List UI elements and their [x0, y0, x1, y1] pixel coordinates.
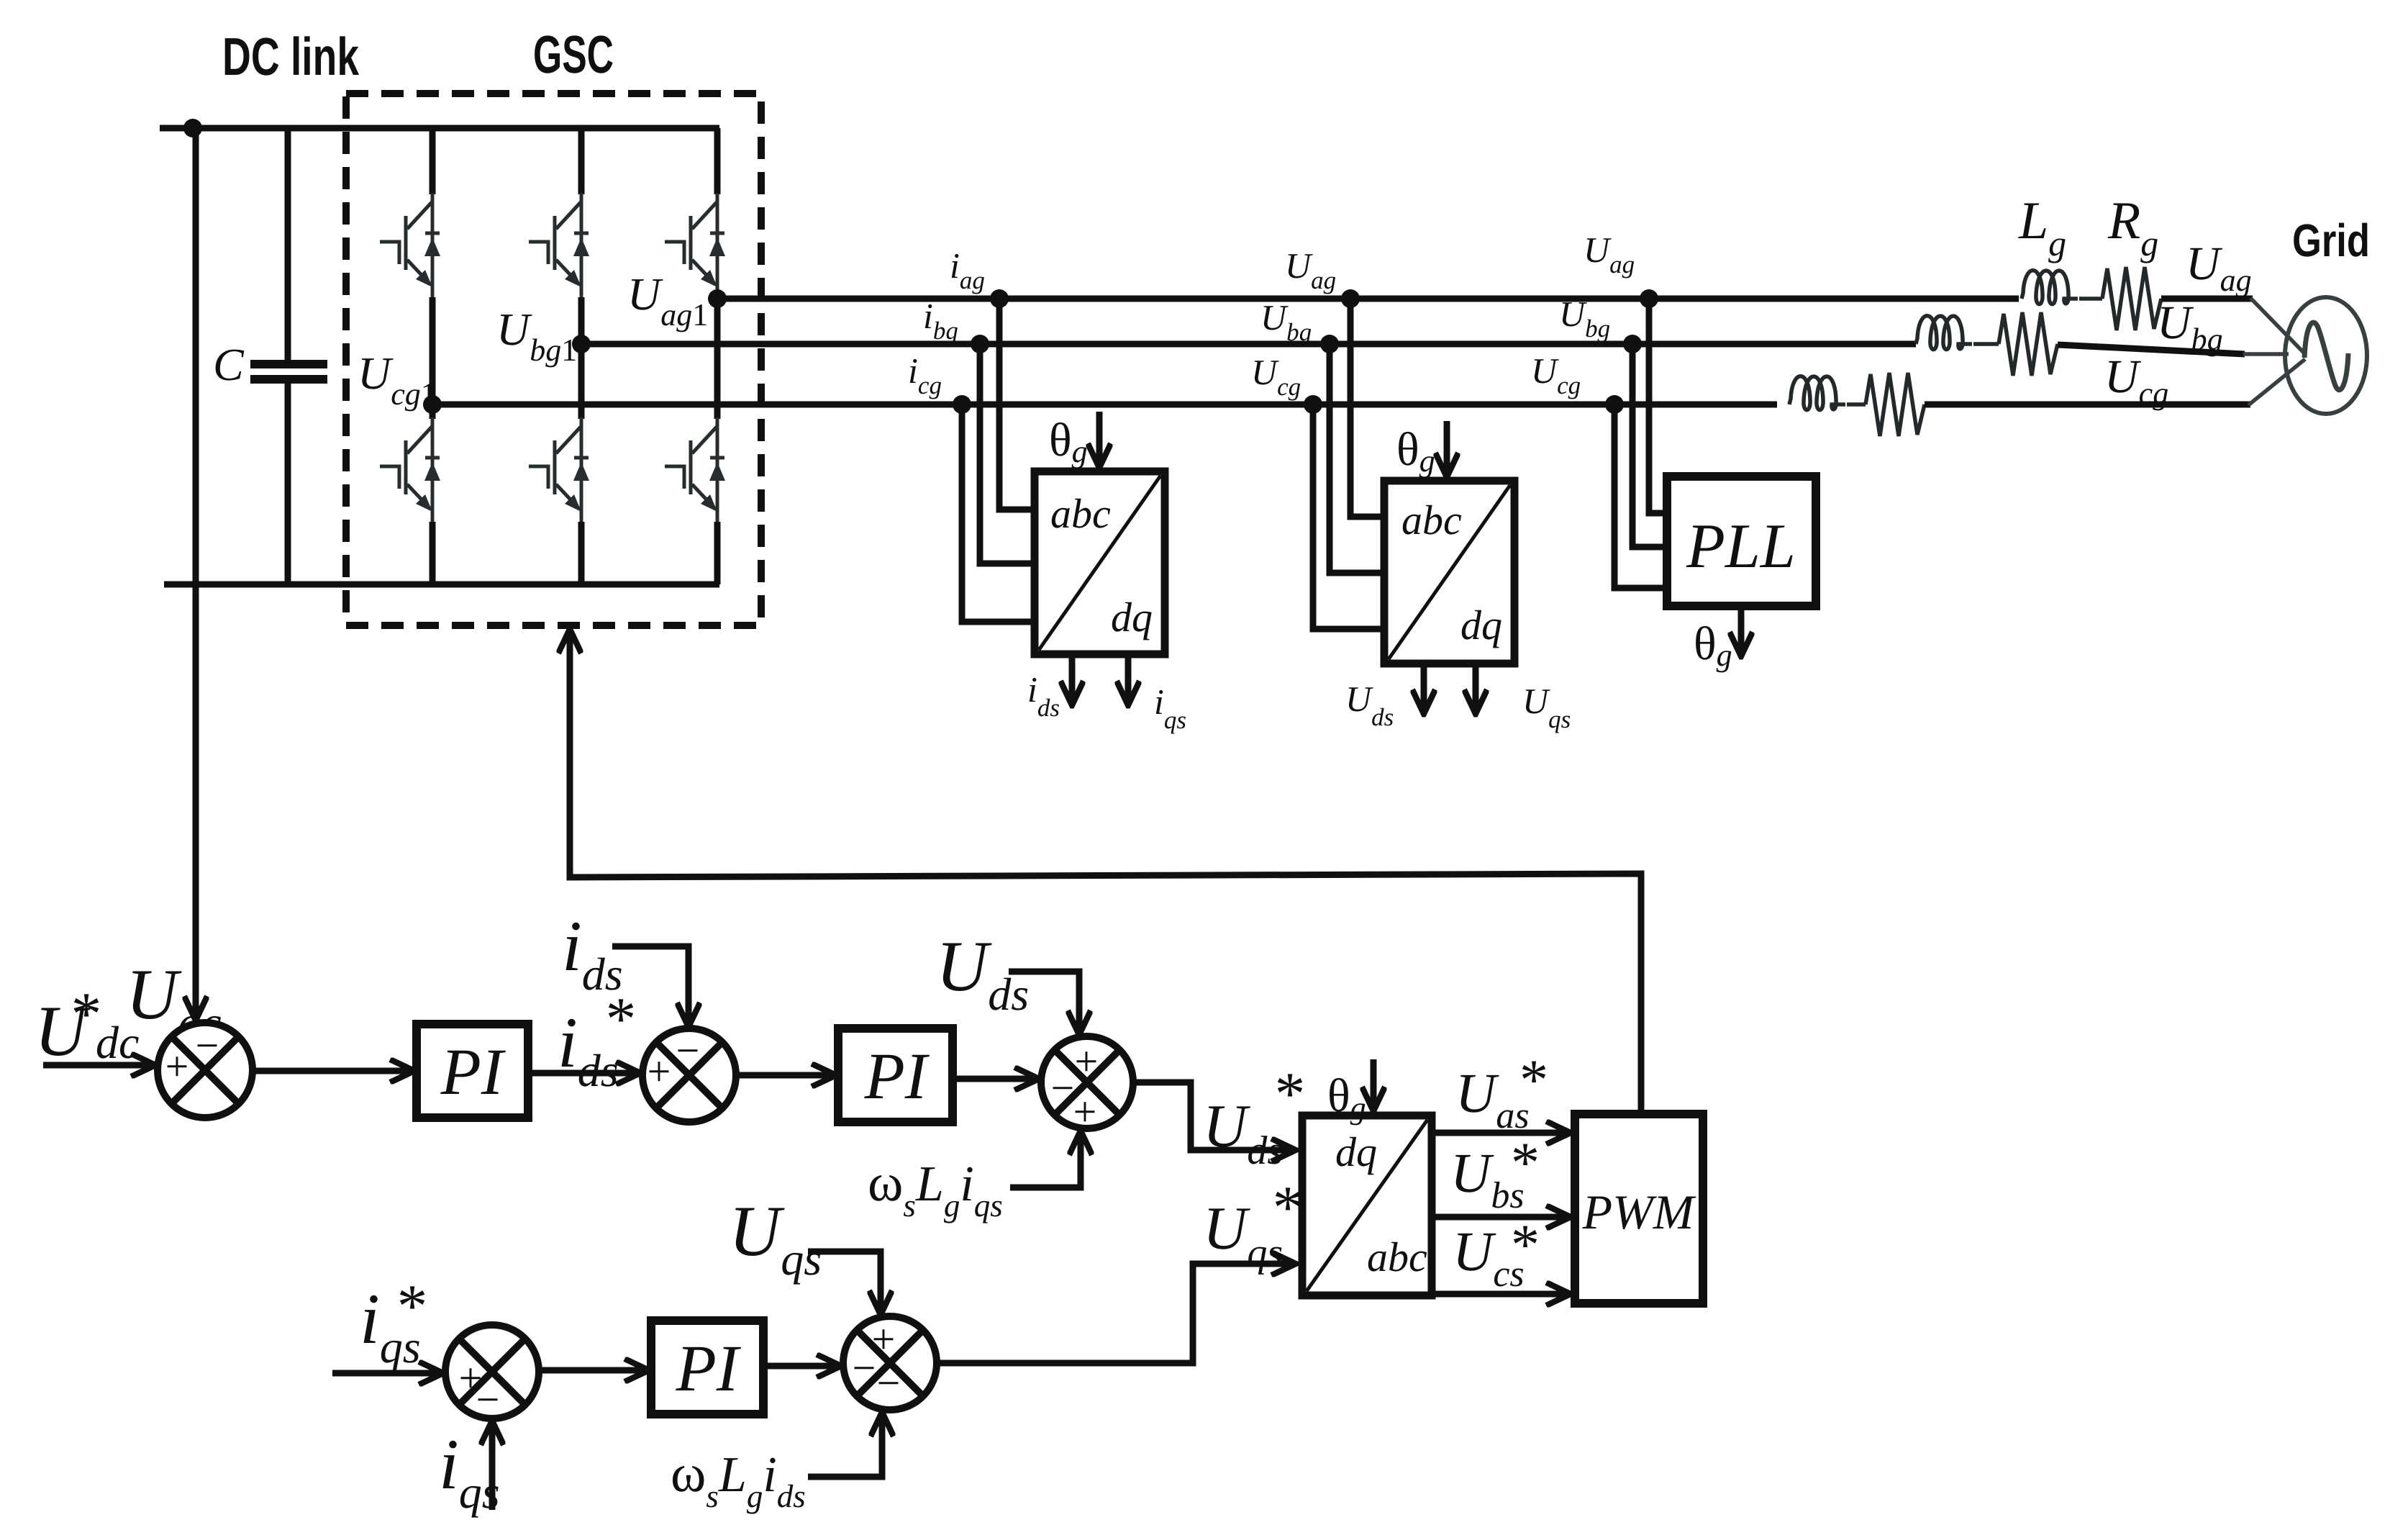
svg-text:−: −: [196, 1022, 219, 1069]
wire S3 to dq-abc (U*ds): [1133, 1082, 1296, 1150]
svg-text:+: +: [1075, 1038, 1099, 1085]
svg-text:ωsLgids: ωsLgids: [671, 1444, 806, 1514]
svg-text:*: *: [1511, 1213, 1540, 1277]
wire: phase a to grid: [2161, 296, 2253, 302]
svg-text:*: *: [397, 1272, 428, 1340]
transistor Q2 (IGBT top leg2): [529, 193, 589, 299]
wire U*cs to PWM: [1432, 1291, 1571, 1298]
svg-text:GSC: GSC: [533, 24, 614, 84]
wire: DC+ top rail: [160, 125, 719, 132]
wire: phase b line: [581, 341, 1916, 348]
wire Uds output arrow: [1421, 664, 1427, 714]
wire i*qs input: [332, 1370, 443, 1377]
svg-text:PI: PI: [676, 1331, 742, 1405]
wire: leg2 collector: [578, 128, 585, 194]
wire Ubg tap2: [1330, 344, 1384, 573]
wire: a L-R link: [2079, 297, 2102, 301]
svg-text:*: *: [1519, 1049, 1548, 1112]
svg-text:Ubg: Ubg: [2157, 297, 2223, 357]
wire theta-g PLL output: [1738, 606, 1745, 656]
svg-text:+: +: [648, 1048, 671, 1095]
wire: b L-R link: [1973, 342, 1999, 346]
svg-text:iag: iag: [950, 245, 985, 294]
wire Uqs into S5: [808, 1252, 881, 1315]
node iag tap: [990, 289, 1009, 308]
wire wsLgiqs into S3: [1010, 1131, 1081, 1187]
wire U*bs to PWM: [1432, 1214, 1571, 1221]
svg-text:Uag1: Uag1: [627, 268, 708, 332]
svg-text:PI: PI: [440, 1035, 506, 1108]
svg-text:Uqs: Uqs: [729, 1191, 822, 1285]
svg-text:Rg: Rg: [2107, 191, 2158, 263]
svg-text:PLL: PLL: [1686, 512, 1796, 582]
wire U*as to PWM: [1432, 1130, 1571, 1136]
svg-text:θg: θg: [1694, 617, 1732, 673]
svg-text:ids: ids: [562, 906, 623, 1000]
svg-text:−: −: [877, 1359, 901, 1406]
transistor Q1 (IGBT top leg1): [380, 193, 440, 299]
wire Ucg tap3: [1614, 404, 1667, 588]
resistor Rg phase a: [2102, 267, 2161, 330]
wire: leg2 mid: [578, 297, 585, 419]
block PI2: [838, 1028, 953, 1122]
block dq-abc inverse transform U13: [1302, 1116, 1432, 1295]
wire ibg tap: [980, 344, 1035, 564]
svg-text:θg: θg: [1049, 414, 1088, 469]
svg-text:ωsLgiqs: ωsLgiqs: [868, 1153, 1003, 1223]
wire Uag tap3: [1649, 299, 1667, 513]
wire theta-g into U13: [1371, 1059, 1377, 1111]
wire: leg2 emitter to rail: [578, 522, 585, 584]
block PWM U14: [1575, 1114, 1703, 1303]
wire: DC- bottom rail: [164, 582, 719, 588]
svg-text:Lg: Lg: [2018, 191, 2066, 263]
svg-text:abc: abc: [1401, 497, 1462, 543]
node ibg tap: [971, 335, 989, 353]
svg-text:Ucg: Ucg: [2104, 350, 2168, 411]
wire Ubg tap3: [1632, 344, 1667, 547]
summing junction S1: [158, 1022, 253, 1118]
wire S1 to PI1: [253, 1068, 414, 1074]
wire wsLgids into S5: [808, 1412, 882, 1477]
summing junction S5: [843, 1316, 937, 1410]
wire: leg3 collector: [714, 128, 721, 194]
block abc-dq voltage transform U11: [1384, 481, 1514, 664]
wire: leg1 mid: [430, 297, 436, 419]
node: DC+ junction dot: [183, 119, 202, 137]
summing junction S3: [1041, 1036, 1133, 1135]
svg-text:θg: θg: [1327, 1069, 1366, 1126]
svg-text:Ubg: Ubg: [1260, 297, 1312, 346]
transistor Q6 (IGBT bottom leg3): [665, 417, 725, 523]
summing junction S4: [445, 1325, 539, 1423]
node Ubg tap2: [1320, 335, 1339, 353]
wire: phase a line: [717, 296, 2019, 302]
svg-text:−: −: [676, 1027, 700, 1074]
capacitor C top lead: [285, 128, 291, 360]
svg-text:dq: dq: [1335, 1128, 1377, 1175]
svg-text:Uag: Uag: [1285, 245, 1336, 294]
summing junction S2: [642, 1027, 736, 1122]
svg-text:Ucg: Ucg: [1531, 350, 1581, 399]
block PI3: [651, 1321, 763, 1414]
node Ucg tap2: [1304, 395, 1322, 414]
wire U*dc input: [43, 1062, 155, 1069]
svg-text:C: C: [213, 339, 245, 390]
transistor Q5 (IGBT bottom leg2): [529, 417, 589, 523]
wire S2 to PI2: [736, 1072, 836, 1079]
svg-text:iqs: iqs: [1154, 682, 1186, 734]
svg-text:*: *: [71, 980, 102, 1048]
svg-text:−: −: [1051, 1064, 1075, 1111]
svg-text:icg: icg: [908, 350, 942, 399]
block PI1: [417, 1024, 528, 1118]
wire: Udc sense rail down to sum1: [193, 128, 199, 1021]
node Uag tap3: [1640, 289, 1658, 308]
svg-text:Uqs: Uqs: [1522, 681, 1571, 733]
svg-text:−: −: [853, 1344, 876, 1391]
wire icg tap: [962, 404, 1035, 622]
node Ubg1: [572, 335, 591, 353]
wire Ucg tap2: [1313, 404, 1384, 629]
wire PI1 to S2: [528, 1070, 640, 1077]
svg-text:Uas: Uas: [1455, 1062, 1530, 1136]
svg-text:+: +: [165, 1043, 189, 1090]
wire: leg1 emitter to rail: [430, 522, 436, 584]
svg-text:ibg: ibg: [923, 296, 958, 345]
block PLL U12: [1667, 476, 1816, 606]
wire PWM feedback to GSC: [570, 629, 1641, 1114]
svg-text:θg: θg: [1396, 423, 1435, 479]
wire Uqs output arrow: [1473, 664, 1479, 714]
AC source (grid): [2285, 297, 2367, 414]
wire S4 to PI3: [539, 1367, 649, 1374]
node Uag tap2: [1341, 289, 1360, 308]
wire: leg3 mid: [714, 297, 721, 419]
transistor Q3 (IGBT top leg3): [665, 193, 725, 299]
node Ucg1: [423, 395, 442, 414]
wire S5 to dq-abc (U*qs): [937, 1264, 1296, 1363]
svg-text:abc: abc: [1050, 490, 1111, 537]
wire iag tap: [999, 299, 1035, 510]
wire PI2 to S3: [953, 1076, 1039, 1082]
wire iqs into S4: [489, 1421, 496, 1510]
svg-text:DC link: DC link: [222, 27, 360, 86]
wire ids output arrow: [1069, 654, 1076, 705]
svg-text:Uag: Uag: [1584, 230, 1635, 279]
svg-text:Uds: Uds: [1203, 1092, 1283, 1173]
node Uag1: [708, 289, 727, 308]
svg-text:abc: abc: [1367, 1234, 1427, 1280]
svg-text:PI: PI: [864, 1039, 930, 1113]
inductor Lg phase b: [1916, 316, 1972, 350]
svg-text:Uds: Uds: [1345, 679, 1394, 731]
svg-text:dq: dq: [1111, 594, 1153, 641]
capacitor C bottom lead: [285, 384, 291, 584]
wire: leg3 emitter to rail: [714, 522, 721, 584]
svg-text:Ubg1: Ubg1: [496, 304, 577, 368]
inductor Lg phase a: [2022, 271, 2078, 304]
wire: phase c to grid: [1925, 402, 2250, 408]
svg-text:Ucg1: Ucg1: [358, 348, 437, 412]
GSC dashed box: [346, 94, 761, 625]
svg-text:Ucg: Ucg: [1251, 352, 1301, 401]
wire PI3 to S5: [763, 1363, 841, 1370]
svg-text:dq: dq: [1460, 602, 1502, 648]
wire: phase b to grid: [2058, 345, 2245, 354]
capacitor C plates: [250, 360, 327, 368]
wire Uag tap2: [1350, 299, 1384, 517]
block abc-dq current transform U10: [1035, 471, 1165, 654]
resistor Rg phase c: [1866, 373, 1925, 436]
svg-text:+: +: [1073, 1088, 1097, 1135]
svg-text:−: −: [476, 1376, 500, 1423]
wire ids into S2: [612, 946, 689, 1027]
resistor Rg phase b: [1999, 312, 2058, 376]
wire theta-g into U11: [1444, 421, 1450, 477]
node Ubg tap3: [1623, 335, 1642, 353]
wire iqs output arrow: [1125, 654, 1132, 705]
wire: leg1 collector: [430, 128, 436, 194]
svg-text:PWM: PWM: [1582, 1185, 1696, 1239]
svg-text:*: *: [1511, 1131, 1540, 1195]
node icg tap: [953, 395, 971, 414]
svg-text:Uag: Uag: [2186, 237, 2252, 298]
wire theta-g into U10: [1096, 412, 1103, 468]
node Ucg tap3: [1605, 395, 1624, 414]
wire: c L-R link: [1847, 402, 1866, 407]
svg-text:ids: ids: [1027, 669, 1060, 722]
inductor Lg phase c: [1789, 376, 1845, 410]
wire: phase c line: [432, 402, 1777, 408]
wire Uds into S3: [1009, 972, 1079, 1035]
svg-text:Grid: Grid: [2292, 214, 2370, 266]
transistor Q4 (IGBT bottom leg1): [380, 417, 440, 523]
